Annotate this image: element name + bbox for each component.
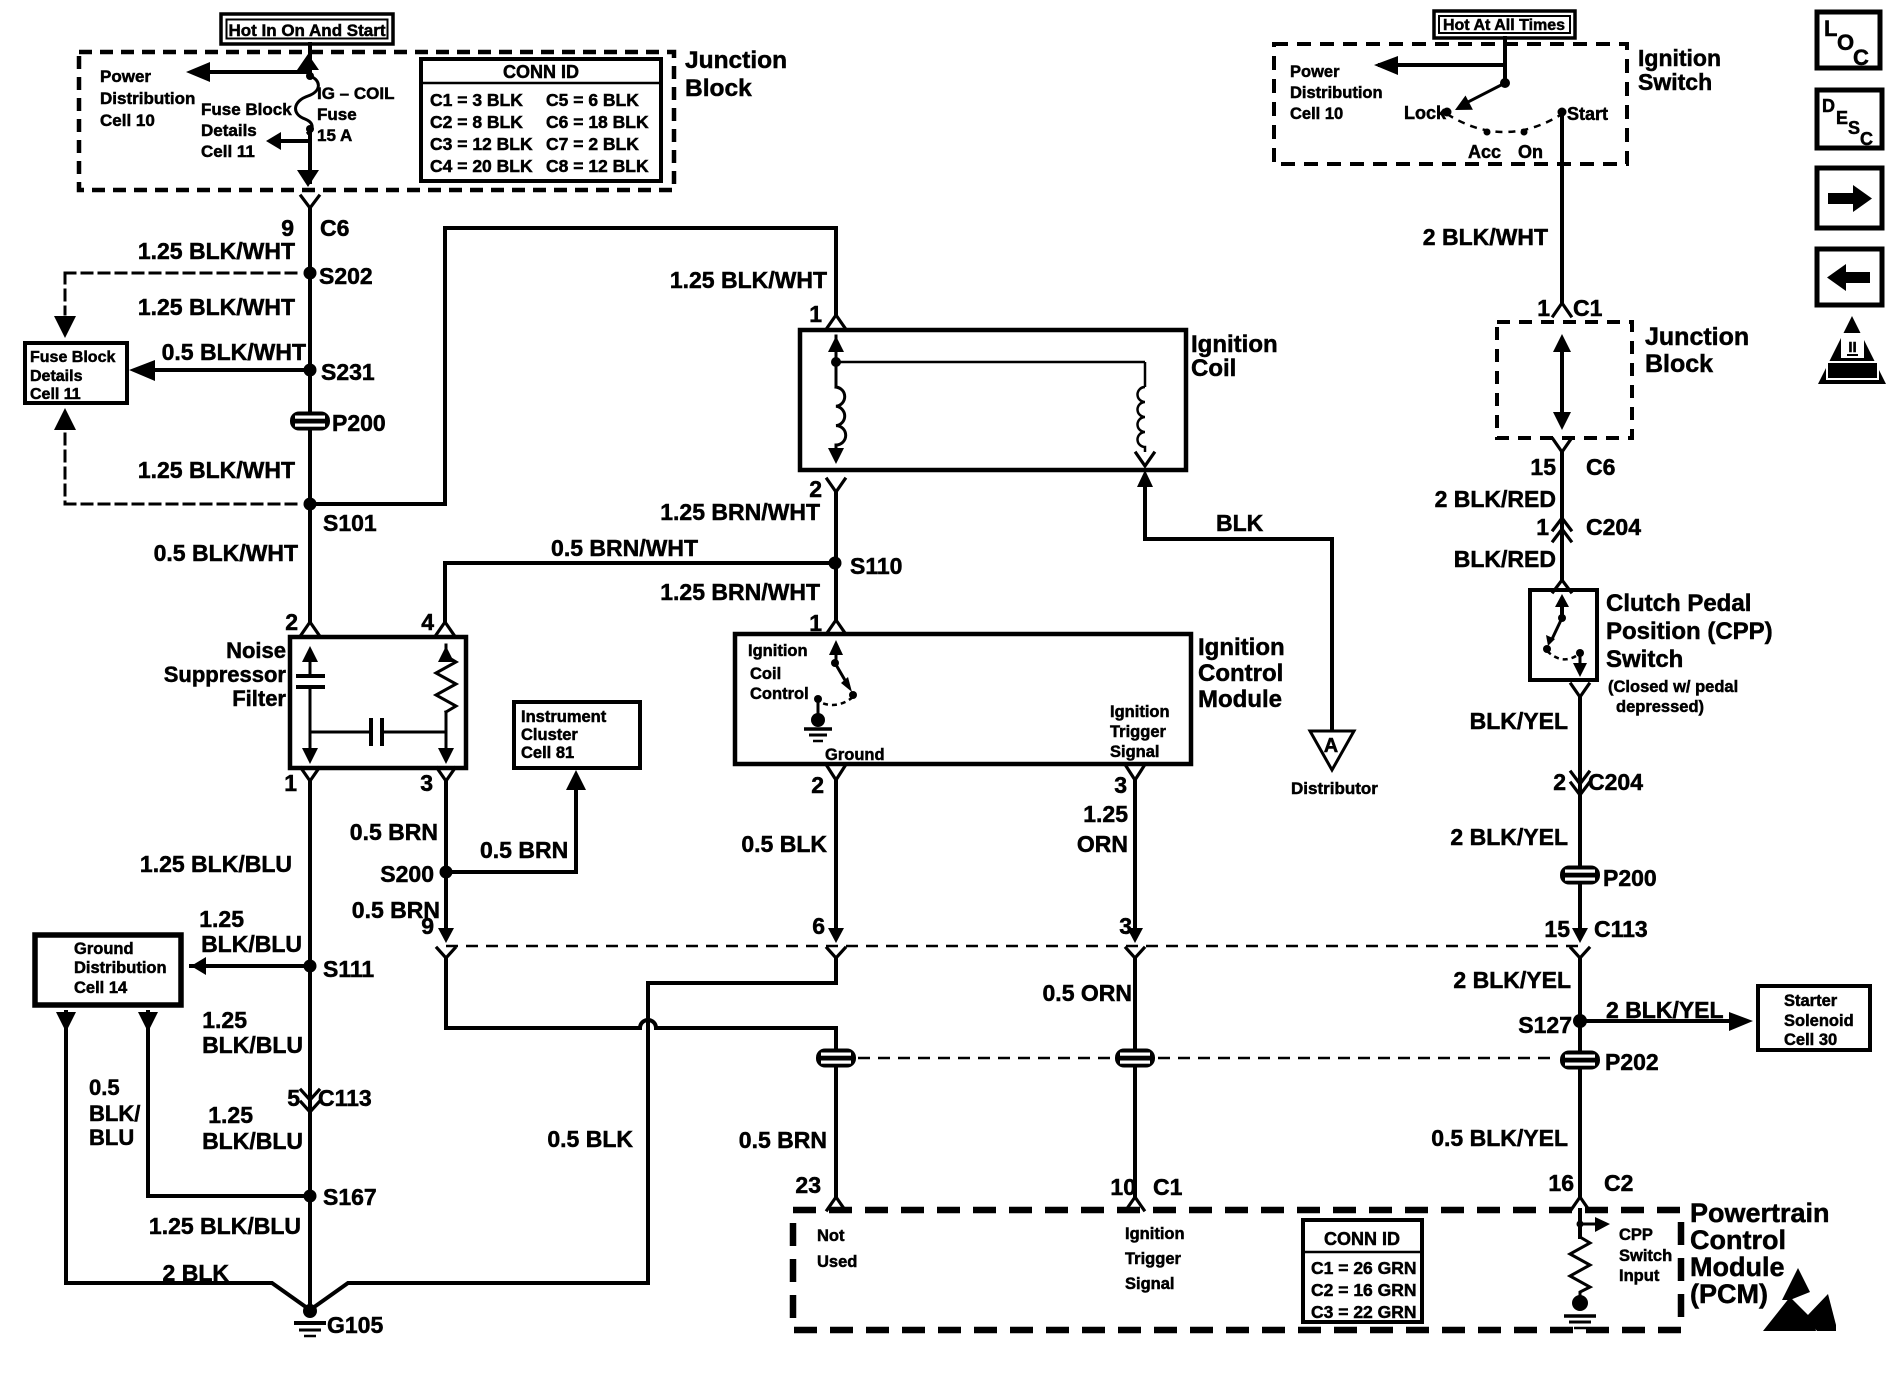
svg-text:BLK/RED: BLK/RED (1454, 546, 1556, 572)
svg-text:2 BLK/YEL: 2 BLK/YEL (1453, 967, 1571, 993)
svg-text:S200: S200 (380, 861, 434, 887)
svg-text:Starter: Starter (1784, 992, 1838, 1010)
svg-text:Hot At All Times: Hot At All Times (1443, 17, 1565, 34)
svg-text:(Closed w/ pedal: (Closed w/ pedal (1608, 678, 1738, 696)
svg-text:Signal: Signal (1110, 743, 1160, 761)
svg-text:Ignition: Ignition (1191, 331, 1278, 358)
svg-text:C1 = 26 GRN: C1 = 26 GRN (1311, 1258, 1417, 1278)
svg-text:S231: S231 (321, 359, 375, 385)
svg-text:L: L (1824, 16, 1837, 41)
svg-text:Start: Start (1567, 104, 1608, 124)
svg-text:Details: Details (30, 368, 83, 385)
svg-text:E: E (1836, 108, 1848, 128)
svg-text:1: 1 (1537, 295, 1550, 321)
svg-text:Details: Details (201, 121, 257, 140)
svg-text:15: 15 (1530, 454, 1556, 480)
svg-text:Position (CPP): Position (CPP) (1606, 618, 1773, 645)
svg-text:Signal: Signal (1125, 1275, 1175, 1293)
svg-text:1.25 BLK/WHT: 1.25 BLK/WHT (670, 267, 827, 293)
svg-text:BLK/BLU: BLK/BLU (202, 1032, 303, 1058)
svg-text:C6: C6 (320, 215, 349, 241)
svg-text:CONN ID: CONN ID (1324, 1229, 1400, 1249)
svg-text:(PCM): (PCM) (1690, 1279, 1768, 1309)
svg-text:1.25 BRN/WHT: 1.25 BRN/WHT (660, 579, 820, 605)
svg-text:Ignition: Ignition (1198, 634, 1285, 661)
svg-text:Coil: Coil (750, 665, 781, 683)
svg-text:O: O (1837, 30, 1854, 55)
svg-text:OBD II: OBD II (1834, 365, 1871, 379)
svg-text:Power: Power (1290, 63, 1340, 81)
svg-text:1.25 BLK/WHT: 1.25 BLK/WHT (138, 238, 295, 264)
svg-text:Ignition: Ignition (748, 642, 808, 660)
svg-text:Cell 30: Cell 30 (1784, 1031, 1837, 1049)
svg-text:3: 3 (1114, 772, 1127, 798)
svg-text:0.5 BLK/YEL: 0.5 BLK/YEL (1431, 1125, 1568, 1151)
svg-text:9: 9 (421, 913, 434, 939)
svg-text:2: 2 (811, 772, 824, 798)
svg-text:C6 = 18 BLK: C6 = 18 BLK (546, 112, 649, 132)
svg-text:0.5 BLK: 0.5 BLK (741, 831, 827, 857)
svg-text:Clutch Pedal: Clutch Pedal (1606, 590, 1751, 617)
svg-text:CONN ID: CONN ID (503, 62, 579, 82)
svg-text:Ignition: Ignition (1638, 45, 1721, 71)
svg-text:C: C (1860, 129, 1873, 149)
svg-text:P200: P200 (332, 410, 386, 436)
svg-text:C1: C1 (1153, 1174, 1183, 1200)
svg-text:Distributor: Distributor (1291, 779, 1378, 798)
svg-text:S: S (1848, 118, 1860, 138)
svg-text:Control: Control (1198, 660, 1283, 687)
svg-text:1: 1 (1536, 514, 1549, 540)
svg-text:Distribution: Distribution (1290, 84, 1383, 102)
svg-text:Switch: Switch (1606, 646, 1683, 673)
svg-text:0.5 BLK: 0.5 BLK (547, 1126, 633, 1152)
svg-text:Acc: Acc (1468, 142, 1501, 162)
svg-text:1.25 BLK/BLU: 1.25 BLK/BLU (149, 1213, 301, 1239)
svg-text:C5 = 6 BLK: C5 = 6 BLK (546, 90, 639, 110)
svg-text:Instrument: Instrument (521, 708, 607, 726)
svg-text:Ground: Ground (825, 746, 885, 764)
svg-text:S127: S127 (1518, 1012, 1572, 1038)
svg-text:CPP: CPP (1619, 1226, 1653, 1244)
svg-text:Cell 11: Cell 11 (30, 386, 81, 403)
svg-text:Control: Control (750, 685, 809, 703)
svg-text:II: II (1848, 339, 1856, 356)
svg-text:4: 4 (421, 609, 434, 635)
svg-text:Ignition: Ignition (1125, 1225, 1185, 1243)
svg-text:C8 = 12 BLK: C8 = 12 BLK (546, 156, 649, 176)
svg-text:C2 = 8 BLK: C2 = 8 BLK (430, 112, 523, 132)
svg-text:C: C (1853, 45, 1869, 70)
svg-text:Ground: Ground (74, 940, 134, 958)
svg-text:Switch: Switch (1638, 69, 1712, 95)
svg-text:Solenoid: Solenoid (1784, 1012, 1854, 1030)
svg-text:G105: G105 (327, 1312, 383, 1338)
svg-text:1.25 BRN/WHT: 1.25 BRN/WHT (660, 499, 820, 525)
svg-text:C2: C2 (1604, 1170, 1633, 1196)
svg-text:BLK/: BLK/ (89, 1101, 140, 1126)
svg-text:Coil: Coil (1191, 355, 1236, 382)
svg-text:1: 1 (809, 610, 822, 636)
svg-text:Power: Power (100, 67, 151, 86)
svg-text:0.5 BLK/WHT: 0.5 BLK/WHT (162, 339, 306, 365)
svg-text:16: 16 (1548, 1170, 1574, 1196)
svg-text:0.5 BRN/WHT: 0.5 BRN/WHT (551, 535, 698, 561)
svg-text:C3 = 22 GRN: C3 = 22 GRN (1311, 1302, 1417, 1322)
svg-text:Powertrain: Powertrain (1690, 1198, 1830, 1228)
svg-text:Fuse Block: Fuse Block (201, 100, 292, 119)
svg-text:D: D (1822, 96, 1835, 116)
svg-text:2: 2 (285, 609, 298, 635)
svg-text:IG – COIL: IG – COIL (317, 84, 394, 103)
svg-text:3: 3 (1119, 913, 1132, 939)
svg-text:P200: P200 (1603, 865, 1657, 891)
svg-text:Input: Input (1619, 1267, 1660, 1285)
svg-text:A: A (1324, 735, 1338, 757)
svg-text:0.5: 0.5 (89, 1075, 120, 1100)
svg-text:C204: C204 (1588, 769, 1643, 795)
svg-text:BLK: BLK (1216, 510, 1264, 536)
svg-text:1.25: 1.25 (1083, 801, 1128, 827)
svg-text:Noise: Noise (226, 638, 286, 663)
svg-text:C1: C1 (1573, 295, 1603, 321)
svg-text:Suppressor: Suppressor (164, 662, 287, 687)
svg-text:BLK/BLU: BLK/BLU (201, 931, 302, 957)
svg-text:S101: S101 (323, 510, 377, 536)
svg-text:C113: C113 (318, 1085, 372, 1111)
svg-text:Junction: Junction (1645, 323, 1749, 351)
svg-text:2 BLK/YEL: 2 BLK/YEL (1450, 824, 1568, 850)
svg-text:5: 5 (287, 1085, 300, 1111)
svg-text:C3 = 12 BLK: C3 = 12 BLK (430, 134, 533, 154)
svg-text:C4 = 20 BLK: C4 = 20 BLK (430, 156, 533, 176)
svg-text:1.25 BLK/BLU: 1.25 BLK/BLU (140, 851, 292, 877)
svg-text:C113: C113 (1594, 916, 1648, 942)
svg-text:Cell 11: Cell 11 (201, 142, 255, 161)
svg-text:S111: S111 (323, 956, 374, 982)
svg-text:P202: P202 (1605, 1049, 1659, 1075)
svg-text:On: On (1518, 142, 1543, 162)
svg-text:Distribution: Distribution (100, 89, 195, 108)
svg-text:S110: S110 (850, 553, 902, 579)
svg-text:1.25: 1.25 (202, 1007, 247, 1033)
svg-text:2 BLK/YEL: 2 BLK/YEL (1606, 997, 1724, 1023)
svg-text:1.25: 1.25 (208, 1102, 253, 1128)
svg-text:BLU: BLU (89, 1125, 134, 1150)
svg-text:2 BLK/RED: 2 BLK/RED (1435, 486, 1556, 512)
svg-text:1: 1 (284, 770, 297, 796)
svg-text:1.25: 1.25 (199, 906, 244, 932)
svg-text:ORN: ORN (1077, 831, 1128, 857)
svg-text:0.5 BRN: 0.5 BRN (480, 837, 568, 863)
svg-text:Junction: Junction (685, 47, 787, 74)
svg-text:S202: S202 (319, 263, 373, 289)
svg-text:0.5 ORN: 0.5 ORN (1043, 980, 1132, 1006)
svg-text:C204: C204 (1586, 514, 1641, 540)
svg-text:6: 6 (812, 913, 825, 939)
svg-text:Used: Used (817, 1253, 857, 1271)
svg-text:Cell 14: Cell 14 (74, 979, 128, 997)
svg-text:C6: C6 (1586, 454, 1615, 480)
svg-text:Block: Block (1645, 350, 1713, 378)
svg-text:Lock: Lock (1404, 103, 1447, 123)
svg-text:15 A: 15 A (317, 126, 352, 145)
svg-text:15: 15 (1544, 916, 1570, 942)
svg-text:Module: Module (1690, 1252, 1785, 1282)
svg-text:BLK/BLU: BLK/BLU (202, 1128, 303, 1154)
svg-text:Trigger: Trigger (1110, 723, 1167, 741)
svg-text:Fuse Block: Fuse Block (30, 349, 115, 366)
svg-text:Switch: Switch (1619, 1247, 1672, 1265)
svg-text:2 BLK: 2 BLK (163, 1260, 230, 1286)
svg-text:Hot In On And Start: Hot In On And Start (228, 21, 385, 40)
svg-text:Filter: Filter (232, 686, 286, 711)
svg-text:9: 9 (281, 215, 294, 241)
svg-text:0.5 BLK/WHT: 0.5 BLK/WHT (154, 540, 298, 566)
svg-text:23: 23 (795, 1172, 821, 1198)
svg-text:Fuse: Fuse (317, 105, 357, 124)
svg-text:2: 2 (1553, 769, 1566, 795)
svg-text:BLK/YEL: BLK/YEL (1470, 708, 1568, 734)
svg-text:1.25 BLK/WHT: 1.25 BLK/WHT (138, 457, 295, 483)
svg-text:Ignition: Ignition (1110, 703, 1170, 721)
svg-text:C7 = 2 BLK: C7 = 2 BLK (546, 134, 639, 154)
svg-text:depressed): depressed) (1616, 698, 1704, 716)
svg-text:C2 = 16 GRN: C2 = 16 GRN (1311, 1280, 1417, 1300)
svg-text:Cluster: Cluster (521, 726, 578, 744)
svg-text:0.5 BRN: 0.5 BRN (739, 1127, 827, 1153)
svg-text:S167: S167 (323, 1184, 377, 1210)
svg-text:0.5 BRN: 0.5 BRN (350, 819, 438, 845)
svg-text:Cell 81: Cell 81 (521, 744, 574, 762)
svg-text:Distribution: Distribution (74, 959, 167, 977)
svg-text:2 BLK/WHT: 2 BLK/WHT (1423, 224, 1548, 250)
svg-text:Trigger: Trigger (1125, 1250, 1182, 1268)
svg-text:Module: Module (1198, 686, 1282, 713)
svg-text:1: 1 (809, 301, 822, 327)
svg-text:C1 = 3 BLK: C1 = 3 BLK (430, 90, 523, 110)
svg-text:Cell 10: Cell 10 (1290, 105, 1343, 123)
svg-text:Cell 10: Cell 10 (100, 111, 155, 130)
svg-text:Block: Block (685, 75, 752, 102)
svg-text:Control: Control (1690, 1225, 1786, 1255)
svg-text:3: 3 (420, 770, 433, 796)
svg-text:Not: Not (817, 1227, 845, 1245)
svg-text:1.25 BLK/WHT: 1.25 BLK/WHT (138, 294, 295, 320)
svg-text:10: 10 (1110, 1174, 1136, 1200)
